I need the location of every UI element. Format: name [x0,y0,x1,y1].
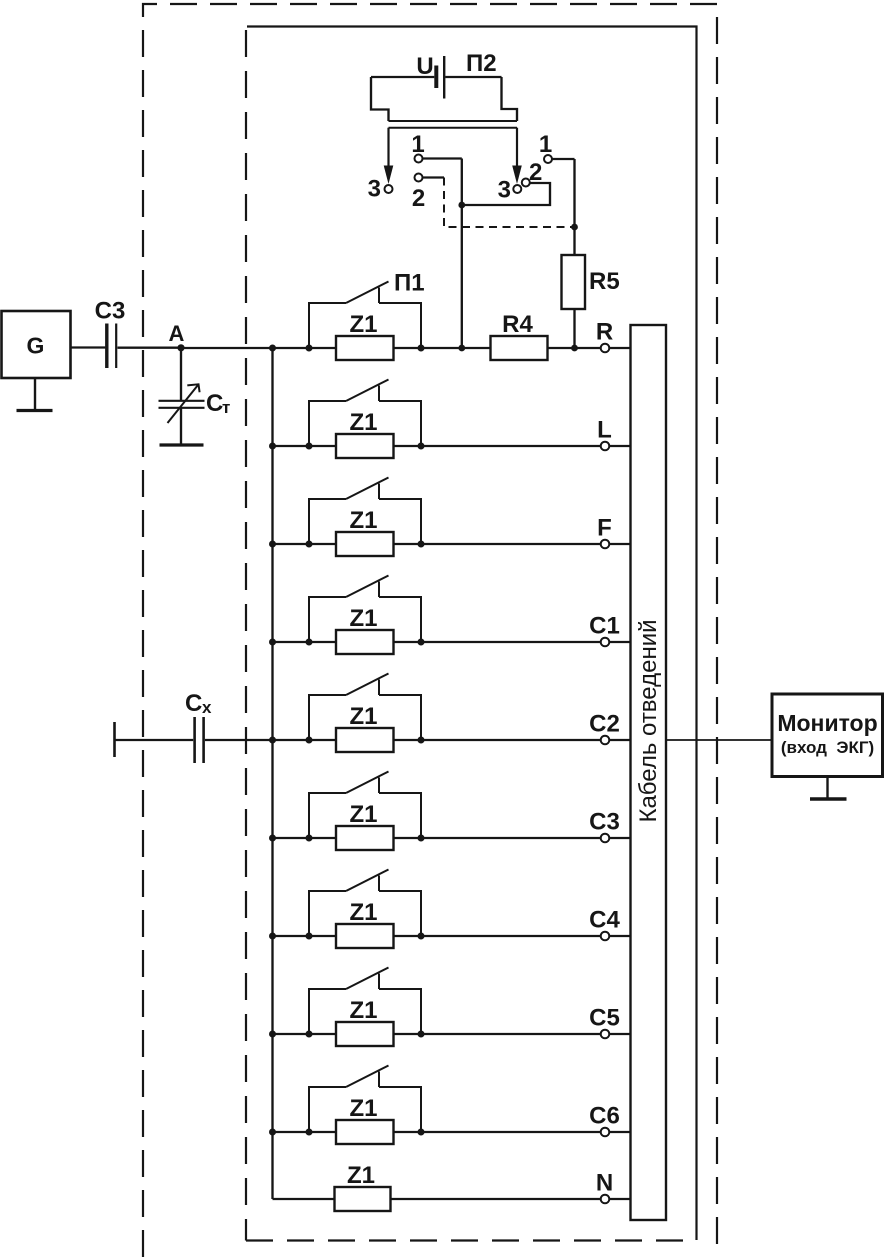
svg-text:3: 3 [368,176,381,203]
node A junction [169,321,185,351]
svg-text:Z1: Z1 [349,801,377,828]
impedance Z1, row L [336,434,394,458]
junction: bus / row C3 [269,835,276,842]
label U [416,53,433,80]
label C3 [589,809,620,836]
svg-text:Z1: Z1 [349,311,377,338]
contact 1 right (circle) [544,155,552,163]
svg-text:C: C [185,690,202,717]
svg-text:C4: C4 [589,907,620,934]
svg-text:G: G [27,333,45,359]
lead contact C6 (circle) [601,1128,610,1137]
junction: bus / row F [269,541,276,548]
battery U: left wire [371,76,434,78]
svg-text:(вход ЭКГ): (вход ЭКГ) [781,738,874,757]
label N [596,1170,613,1197]
svg-text:C1: C1 [589,613,620,640]
label C4 [589,907,620,934]
svg-text:1: 1 [411,131,424,158]
junction: switch right post, row C2 [418,737,425,744]
svg-text:R5: R5 [589,268,620,295]
svg-text:C3: C3 [95,298,126,325]
svg-text:R: R [596,319,613,346]
outer dashed enclosure (screen/shield border) [143,4,717,1257]
bypass switch across Z1, row R [309,282,421,349]
label Кабель отведений (rotated) [635,619,662,822]
junction: switch right post, row C4 [418,933,425,940]
impedance Z1, row N [335,1187,391,1211]
junction: switch left post, row C3 [306,835,313,842]
trimmer capacitor Ct (variable, arrow through plates) [159,384,205,423]
lead contact N (circle) [601,1195,610,1204]
label Z1, row C3 [349,801,377,828]
impedance Z1, row C4 [336,924,394,948]
row R: horizontal wire [181,347,631,349]
monitor box (Монитор, вход ЭКГ) [772,694,883,777]
wire: generator G to capacitor C3 [71,346,106,348]
generator G box [2,311,71,378]
lead contact L (circle) [601,442,610,451]
junction: switch left post, row F [306,541,313,548]
row L: horizontal wire [273,445,631,447]
wire: Ct to terminal bar [180,408,182,444]
label П2 [466,50,497,77]
svg-text:Z1: Z1 [349,605,377,632]
impedance Z1, row R [336,336,394,360]
label Cx [185,690,212,717]
label Z1, row C1 [349,605,377,632]
bypass switch across Z1, row F [309,478,421,545]
contact 2 right (circle) [522,179,530,187]
svg-text:Z1: Z1 [349,1095,377,1122]
label R [596,319,613,346]
svg-text:R4: R4 [502,311,533,338]
label F [597,515,612,542]
bypass switch across Z1, row C5 [309,968,421,1035]
svg-text:x: x [202,698,212,717]
contact 1 left (circle) [415,155,423,163]
wire: vertical drop from right contact 1 to resistor R5 [573,159,575,255]
contact 2 left (circle) [415,174,423,182]
impedance Z1, row C2 [336,728,394,752]
svg-text:П2: П2 [466,50,497,77]
terminal bar below Ct [160,443,204,446]
lead cable box (Кабель отведений) [631,325,667,1220]
label C3 [95,298,126,325]
junction: R5 / row R [571,345,578,352]
wire: left contact 2 stub [423,176,444,178]
svg-text:1: 1 [539,131,552,158]
battery U: short plate [434,66,438,89]
svg-text:П1: П1 [394,270,425,297]
junction: switch right post, row C6 [418,1129,425,1136]
svg-text:Z1: Z1 [349,703,377,730]
label C1 [589,613,620,640]
junction: bus / row C4 [269,933,276,940]
label 3 (left) [368,176,381,203]
ground below monitor [810,777,847,800]
bypass switch across Z1, row C3 [309,772,421,839]
wire: right contact 2 to link down to left drop [462,183,550,205]
row C1: horizontal wire [273,641,631,643]
row C4: horizontal wire [273,935,631,937]
label 2 (right) [529,159,542,186]
bypass switch across Z1, row C2 [309,674,421,741]
label 1 (left) [411,131,424,158]
label 1 (right) [539,131,552,158]
junction: switch right post, row C3 [418,835,425,842]
junction: switch left post, row R [306,345,313,352]
label Z1, row F [349,507,377,534]
row F: horizontal wire [273,543,631,545]
svg-text:3: 3 [498,177,511,204]
wire: node A down to trimmer capacitor Ct [180,348,182,400]
label Z1, row C2 [349,703,377,730]
svg-text:Монитор: Монитор [777,710,877,736]
bypass switch across Z1, row C6 [309,1066,421,1133]
resistor R5 [562,255,586,309]
svg-text:C: C [206,390,223,417]
junction: bus / row C1 [269,639,276,646]
svg-text:C5: C5 [589,1005,620,1032]
label 3 (right) [498,177,511,204]
label R4 [502,311,533,338]
svg-text:т: т [222,398,230,417]
junction: switch left post, row C1 [306,639,313,646]
impedance Z1, row C3 [336,826,394,850]
impedance Z1, row C5 [336,1022,394,1046]
svg-text:F: F [597,515,612,542]
label R5 [589,268,620,295]
junction: bus / row C5 [269,1031,276,1038]
svg-text:Z1: Z1 [349,409,377,436]
bypass switch across Z1, row C4 [309,870,421,937]
impedance Z1, row C6 [336,1120,394,1144]
switch П2 left wiper arrow [387,128,389,170]
row C5: horizontal wire [273,1033,631,1035]
junction: bus / row L [269,443,276,450]
wire: cable box to monitor (row C2 level) [666,739,772,741]
junction: switch right post, row L [418,443,425,450]
label Z1, row N [347,1162,375,1189]
wire: terminal to capacitor Cx [115,739,194,741]
row N: horizontal wire [273,1198,631,1200]
lead contact C5 (circle) [601,1030,610,1039]
junction: drop / link wire [458,202,465,209]
junction: bus / row C2 [269,737,276,744]
impedance Z1, row F [336,532,394,556]
junction: R5 drop / dashed link [571,224,578,231]
contact 3 left (circle) [385,185,393,193]
row C3: horizontal wire [273,837,631,839]
label Z1, row R [349,311,377,338]
capacitor Cx [195,717,204,763]
svg-text:Кабель отведений: Кабель отведений [635,619,662,822]
battery U: right wire [445,76,501,78]
bypass switch across Z1, row L [309,380,421,447]
label C6 [589,1103,620,1130]
resistor R4 [491,336,548,360]
svg-text:U: U [416,53,433,80]
label Z1, row C4 [349,899,377,926]
label Z1, row L [349,409,377,436]
wire: capacitor C3 to node A [118,347,182,349]
junction: switch right post, row R [418,345,425,352]
inner enclosure: solid top and right border [247,27,697,1241]
dashed link wire from left contact 2 to R5 drop [444,178,575,228]
junction: switch left post, row C6 [306,1129,313,1136]
svg-text:C6: C6 [589,1103,620,1130]
svg-text:Z1: Z1 [349,997,377,1024]
label C5 [589,1005,620,1032]
svg-text:N: N [596,1170,613,1197]
wire: capacitor Cx to bus [205,739,273,741]
svg-text:L: L [597,417,612,444]
lead contact F (circle) [601,540,610,549]
lead contact C3 (circle) [601,834,610,843]
svg-text:Z1: Z1 [349,507,377,534]
junction: switch left post, row L [306,443,313,450]
left electrode terminal bar (patient side) [113,722,116,757]
junction: switch right post, row F [418,541,425,548]
wire: right contact 1 to R5 drop [552,158,574,160]
label C2 [589,711,620,738]
junction: drop / row R [458,345,465,352]
capacitor C3 [107,324,116,369]
contact 3 right (circle) [513,185,521,193]
impedance Z1, row C1 [336,630,394,654]
switch П2 right wiper arrow [516,128,518,170]
vertical bus wire joining all rows [271,348,273,1199]
junction: switch left post, row C2 [306,737,313,744]
svg-text:C2: C2 [589,711,620,738]
lead contact C4 (circle) [601,932,610,941]
lead contact C1 (circle) [601,638,610,647]
wire: battery right lead down to switch bar [502,77,518,121]
wire: vertical drop from left contact 1 to row R [461,159,463,349]
wire: battery left lead down to switch bar [371,77,389,121]
lead contact C2 (circle) [601,736,610,745]
bypass switch across Z1, row C1 [309,576,421,643]
label Ct [206,390,230,417]
battery U: long plate [443,56,445,99]
lead contact R (circle) [601,344,610,353]
junction: switch right post, row C5 [418,1031,425,1038]
label П1 (switch on row R) [394,270,425,297]
wire: left contact 1 to vertical drop [423,157,462,159]
junction: bus / row C6 [269,1129,276,1136]
row C2: horizontal wire [273,739,631,741]
ground below generator G [17,378,53,411]
switch П2 ganged bar (double line) [389,121,518,128]
label Z1, row C6 [349,1095,377,1122]
label L [597,417,612,444]
label 2 (left) [412,185,425,212]
junction: switch left post, row C4 [306,933,313,940]
svg-text:2: 2 [412,185,425,212]
inner enclosure: dashed left and bottom border [246,30,694,1241]
svg-text:C3: C3 [589,809,620,836]
svg-text:A: A [169,321,185,346]
wire: resistor R5 to row R [573,309,575,348]
junction: switch right post, row C1 [418,639,425,646]
junction: switch left post, row C5 [306,1031,313,1038]
row C6: horizontal wire [273,1131,631,1133]
svg-text:Z1: Z1 [347,1162,375,1189]
svg-text:Z1: Z1 [349,899,377,926]
junction: bus / row R [269,345,276,352]
label Z1, row C5 [349,997,377,1024]
